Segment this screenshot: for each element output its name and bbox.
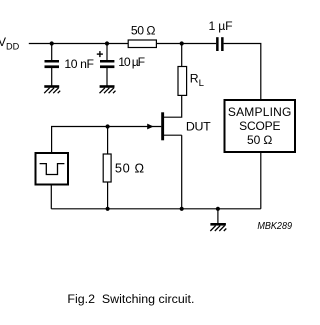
wire: VDD rail left segment xyxy=(29,43,128,45)
svg-text:50 Ω: 50 Ω xyxy=(131,23,156,37)
wire: ground bus xyxy=(51,208,260,210)
junction: VDD / C2 xyxy=(105,41,109,45)
svg-text:10 nF: 10 nF xyxy=(64,57,94,71)
instrument: SAMPLING SCOPE box xyxy=(225,100,296,152)
wire: RL bottom to drain xyxy=(164,95,182,117)
generator box xyxy=(36,153,69,185)
scope text xyxy=(228,105,291,147)
wire: generator bottom lead xyxy=(50,185,52,209)
junction: bus / R2 xyxy=(106,207,110,211)
wire: generator to gate xyxy=(52,127,162,153)
wire: source to ground bus xyxy=(181,135,183,209)
svg-text:VDD: VDD xyxy=(0,35,20,51)
transistor DUT xyxy=(147,112,182,140)
svg-text:1 µF: 1 µF xyxy=(209,19,233,33)
junction: bus / ground xyxy=(216,207,220,211)
ground under C1 xyxy=(44,87,60,94)
resistor RL xyxy=(178,67,187,96)
junction: bus / source xyxy=(180,207,184,211)
wire: C1 top lead xyxy=(51,44,53,61)
capacitor C3 1 uF xyxy=(216,37,224,51)
capacitor C2 10 uF xyxy=(100,60,114,68)
svg-text:Fig.2 Switching circuit.: Fig.2 Switching circuit. xyxy=(67,292,194,306)
ground under C2 xyxy=(100,87,116,94)
svg-text:RL: RL xyxy=(190,72,205,90)
capacitor C1 10 nF xyxy=(45,60,60,68)
wire: R2 top lead xyxy=(107,127,109,155)
wire: rail right segment + drop to scope xyxy=(224,44,261,100)
wire: RL top lead xyxy=(181,44,183,67)
polarity + of C2 xyxy=(97,51,103,57)
wire: C1 bottom lead xyxy=(51,68,53,86)
svg-text:10 µF: 10 µF xyxy=(118,55,145,69)
wire: C2 bottom lead xyxy=(106,68,108,86)
resistor R1 50 Ohm series xyxy=(128,40,156,48)
wire: scope bottom lead xyxy=(260,152,262,209)
node VDD xyxy=(0,35,20,51)
junction: rail / RL xyxy=(180,41,184,45)
svg-text:SCOPE: SCOPE xyxy=(239,119,280,133)
svg-text:SAMPLING: SAMPLING xyxy=(228,105,291,119)
junction: VDD / C1 xyxy=(50,41,54,45)
svg-text:DUT: DUT xyxy=(186,120,211,134)
wire: C2 top lead xyxy=(106,44,108,61)
svg-text:50 Ω: 50 Ω xyxy=(247,133,272,147)
generator pulse symbol xyxy=(40,164,65,175)
svg-text:MBK289: MBK289 xyxy=(257,221,292,232)
svg-text:50 Ω: 50 Ω xyxy=(115,161,145,176)
wire: VDD rail middle segment xyxy=(156,43,216,45)
junction: gate wire / R2 xyxy=(106,124,110,128)
resistor R2 50 Ohm shunt xyxy=(103,154,111,182)
wire: R2 bottom lead xyxy=(107,182,109,209)
ground (bottom) xyxy=(210,209,226,231)
